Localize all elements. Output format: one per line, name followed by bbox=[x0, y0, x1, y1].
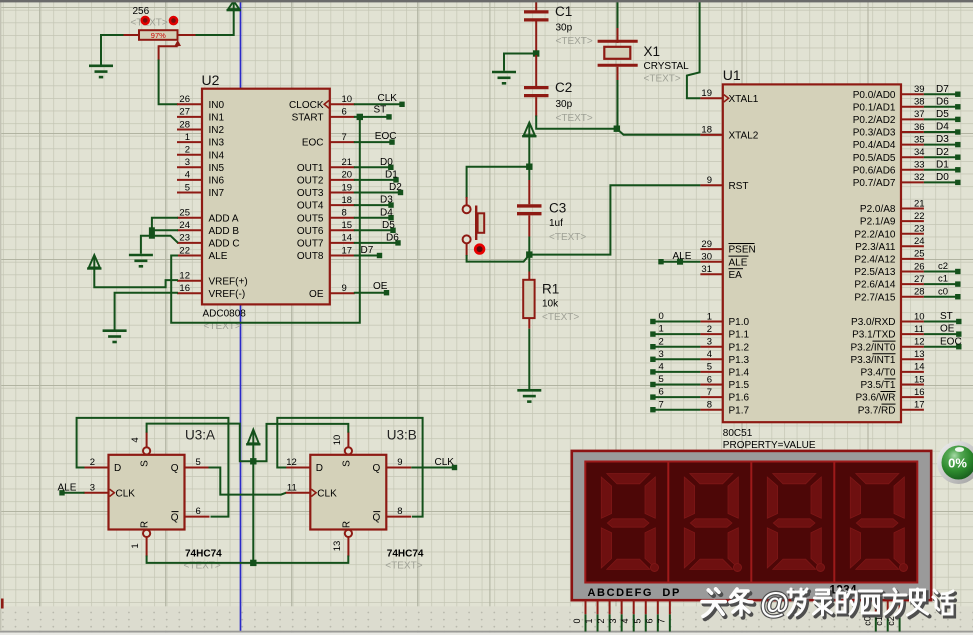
svg-text:7: 7 bbox=[707, 387, 712, 398]
ground (ADD pins) bbox=[129, 255, 153, 266]
svg-text:<TEXT>: <TEXT> bbox=[549, 232, 586, 243]
node ALE (U1) bbox=[658, 251, 700, 265]
svg-text:P3.1/TXD: P3.1/TXD bbox=[852, 330, 895, 341]
U1 pin 5 P1.4 bbox=[700, 362, 749, 379]
svg-text:10: 10 bbox=[342, 94, 353, 105]
svg-text:4: 4 bbox=[620, 618, 630, 623]
svg-text:D: D bbox=[316, 463, 323, 474]
svg-text:U3:B: U3:B bbox=[387, 427, 417, 442]
svg-text:IN6: IN6 bbox=[209, 176, 225, 187]
node ST bbox=[354, 105, 392, 121]
ground (VREF-) bbox=[103, 331, 127, 342]
capacitor C1 bbox=[524, 2, 549, 52]
svg-text:CLK: CLK bbox=[435, 457, 455, 468]
node D6 (U2) bbox=[354, 233, 401, 246]
svg-text:c0: c0 bbox=[862, 616, 872, 626]
svg-text:U2: U2 bbox=[202, 72, 220, 88]
svg-text:D5: D5 bbox=[382, 220, 395, 231]
svg-text:U3:A: U3:A bbox=[185, 427, 215, 442]
U2 pin 1 IN3 bbox=[177, 132, 225, 149]
svg-text:P1.4: P1.4 bbox=[729, 368, 750, 379]
node D1 (U1) bbox=[924, 159, 961, 172]
svg-text:<TEXT>: <TEXT> bbox=[542, 312, 579, 323]
wire VCC stem to R rail bbox=[252, 444, 254, 563]
U2 pin 12 VREF(+) bbox=[177, 271, 248, 288]
svg-text:5: 5 bbox=[632, 618, 642, 623]
svg-text:OUT5: OUT5 bbox=[297, 213, 324, 224]
node D4 (U1) bbox=[924, 122, 961, 135]
wire to button top bbox=[467, 167, 530, 206]
svg-text:P0.7/AD7: P0.7/AD7 bbox=[853, 178, 896, 189]
svg-text:2: 2 bbox=[90, 457, 95, 468]
svg-text:P2.2/A10: P2.2/A10 bbox=[854, 229, 896, 240]
U1 pin 39 P0.0/AD0 bbox=[853, 84, 925, 101]
7-seg pin 1 bbox=[584, 600, 598, 631]
svg-text:R1: R1 bbox=[542, 282, 559, 297]
potentiometer body bbox=[139, 30, 178, 40]
svg-text:D6: D6 bbox=[386, 233, 399, 244]
U3:A pin 4 S bbox=[130, 432, 151, 467]
svg-text:28: 28 bbox=[914, 287, 925, 298]
svg-text:START: START bbox=[292, 113, 324, 124]
sheet bottom margin strip bbox=[0, 606, 973, 630]
svg-text:D7: D7 bbox=[936, 84, 949, 95]
svg-text:74HC74: 74HC74 bbox=[387, 548, 424, 559]
svg-text:P2.3/A11: P2.3/A11 bbox=[855, 242, 896, 253]
svg-text:OUT1: OUT1 bbox=[297, 163, 324, 174]
svg-text:P3.4/T0: P3.4/T0 bbox=[860, 368, 895, 379]
svg-text:21: 21 bbox=[914, 198, 925, 209]
svg-text:P2.7/A15: P2.7/A15 bbox=[854, 292, 896, 303]
svg-text:10k: 10k bbox=[542, 299, 559, 310]
wire R rail bbox=[147, 556, 349, 563]
svg-text:21: 21 bbox=[342, 157, 353, 168]
U1 pin 9 RST bbox=[700, 175, 748, 192]
U2 pin 16 VREF(-) bbox=[177, 283, 245, 300]
svg-text:ADD A: ADD A bbox=[209, 213, 239, 224]
svg-text:13: 13 bbox=[332, 541, 343, 552]
svg-text:74HC74: 74HC74 bbox=[185, 548, 222, 559]
junction dot C1/C2 bbox=[533, 50, 539, 56]
svg-text:24: 24 bbox=[914, 236, 925, 247]
U1 pin 25 P2.4/A12 bbox=[854, 249, 924, 266]
power arrow (pot) bbox=[227, 1, 241, 10]
svg-text:<TEXT>: <TEXT> bbox=[644, 74, 681, 85]
junction dot ADD B bbox=[149, 227, 155, 233]
svg-text:IN7: IN7 bbox=[209, 188, 225, 199]
node OE (U1) bbox=[924, 324, 962, 337]
svg-text:4: 4 bbox=[659, 362, 664, 373]
svg-text:3: 3 bbox=[659, 349, 664, 360]
U2 pin 7 EOC bbox=[302, 132, 355, 149]
node c0 (U1) bbox=[924, 286, 961, 299]
node c2 (U1) bbox=[924, 261, 961, 274]
svg-text:0: 0 bbox=[572, 618, 582, 623]
svg-text:7: 7 bbox=[659, 399, 664, 410]
svg-text:OUT8: OUT8 bbox=[297, 251, 324, 262]
svg-text:c2: c2 bbox=[938, 261, 948, 272]
U1 pin 29 PSEN bbox=[700, 239, 755, 256]
wire button bottom bbox=[467, 243, 530, 261]
U3:B 74HC74 body bbox=[310, 455, 386, 530]
U1 pin 32 P0.7/AD7 bbox=[853, 172, 925, 189]
svg-text:OE: OE bbox=[309, 289, 324, 300]
svg-text:ALE: ALE bbox=[729, 257, 748, 268]
junction dot C3 top bbox=[526, 164, 532, 170]
svg-text:5: 5 bbox=[659, 374, 664, 385]
svg-text:19: 19 bbox=[701, 88, 712, 99]
U2 pin 15 OUT6 bbox=[297, 220, 355, 237]
7-seg digit 3 bbox=[767, 474, 824, 572]
U2 pin 6 START bbox=[292, 107, 355, 124]
node D6 (U1) bbox=[924, 96, 961, 109]
svg-text:D2: D2 bbox=[389, 182, 402, 193]
U2 pin 2 IN4 bbox=[177, 145, 225, 162]
node ALE (U3:A CLK) bbox=[58, 482, 85, 495]
svg-text:P1.2: P1.2 bbox=[729, 342, 750, 353]
svg-text:IN2: IN2 bbox=[209, 125, 225, 136]
U1 pin 28 P2.7/A15 bbox=[854, 287, 924, 304]
U3:A pin 6 Qbar bbox=[171, 506, 210, 523]
U1 pin 21 P2.0/A8 bbox=[860, 198, 925, 215]
capacitor C3 bbox=[517, 169, 542, 252]
svg-text:CLK: CLK bbox=[116, 488, 136, 499]
pot red indicator dot 1 bbox=[140, 16, 150, 26]
U3:A pin 2 D bbox=[84, 457, 122, 474]
svg-text:5: 5 bbox=[707, 362, 712, 373]
wire VREF+ to power bbox=[94, 269, 178, 288]
7-seg digit 1 bbox=[601, 474, 658, 572]
svg-text:7: 7 bbox=[342, 132, 347, 143]
svg-text:27: 27 bbox=[179, 107, 190, 118]
svg-text:ALE: ALE bbox=[209, 251, 228, 262]
svg-text:3: 3 bbox=[90, 482, 95, 493]
svg-text:R: R bbox=[341, 521, 352, 528]
svg-text:27: 27 bbox=[914, 274, 925, 285]
svg-text:EA: EA bbox=[729, 270, 743, 281]
svg-text:R: R bbox=[140, 521, 151, 528]
U2 pin 26 IN0 bbox=[177, 94, 225, 111]
U2 clock wedge bbox=[324, 100, 329, 108]
U2 pin 3 IN5 bbox=[177, 157, 225, 174]
wire wiper to IN0 bbox=[159, 45, 178, 104]
svg-text:D: D bbox=[114, 463, 121, 474]
U1 pin 22 P2.1/A9 bbox=[860, 211, 925, 228]
svg-text:OUT6: OUT6 bbox=[297, 226, 324, 237]
U1 pin 24 P2.3/A11 bbox=[855, 236, 924, 253]
svg-text:OUT3: OUT3 bbox=[297, 188, 324, 199]
ground (C1/C2) bbox=[492, 72, 516, 83]
svg-text:P3.0/RXD: P3.0/RXD bbox=[851, 317, 895, 328]
svg-text:P2.1/A9: P2.1/A9 bbox=[860, 217, 896, 228]
svg-text:IN5: IN5 bbox=[209, 163, 225, 174]
U1 XTAL1 clock wedge bbox=[724, 95, 729, 102]
node EOC (U1) bbox=[924, 336, 962, 349]
U1 pin 13 P3.3/INT1 bbox=[850, 349, 924, 366]
node 7 (U1 P1.7) bbox=[650, 399, 700, 412]
node 6 (U1 P1.6) bbox=[650, 387, 700, 400]
U2 pin 18 OUT4 bbox=[297, 195, 355, 212]
svg-text:C1: C1 bbox=[555, 4, 572, 19]
U2 pin 27 IN1 bbox=[177, 107, 225, 124]
svg-text:8: 8 bbox=[342, 208, 347, 219]
svg-text:32: 32 bbox=[914, 172, 925, 183]
svg-text:IN1: IN1 bbox=[209, 113, 225, 124]
svg-text:2: 2 bbox=[185, 145, 190, 156]
svg-text:37: 37 bbox=[914, 109, 925, 120]
svg-text:Q: Q bbox=[171, 512, 179, 523]
svg-text:P3.3/INT1: P3.3/INT1 bbox=[850, 355, 895, 366]
svg-text:34: 34 bbox=[914, 147, 925, 158]
junction dot C3 bottom bbox=[526, 251, 532, 257]
U1 pin 1 P1.0 bbox=[700, 311, 749, 328]
svg-text:VREF(+): VREF(+) bbox=[209, 276, 248, 287]
ground (pot) bbox=[89, 66, 113, 77]
U1 pin 16 P3.6/WR bbox=[855, 387, 924, 404]
svg-text:30p: 30p bbox=[556, 99, 573, 110]
svg-text:D1: D1 bbox=[385, 170, 398, 181]
svg-text:EOC: EOC bbox=[940, 336, 962, 347]
U1 pin 18 XTAL2 bbox=[700, 125, 758, 142]
7-seg pin c2 bbox=[886, 600, 900, 631]
wire C2 bottom to XTAL2 node bbox=[536, 116, 617, 129]
power arrow (reset) bbox=[522, 123, 536, 137]
svg-text:D1: D1 bbox=[936, 159, 949, 170]
svg-text:P1.0: P1.0 bbox=[729, 317, 750, 328]
U2 pin 24 ADD B bbox=[177, 220, 239, 237]
U3:B pin 12 D bbox=[285, 457, 323, 474]
svg-text:EOC: EOC bbox=[302, 138, 324, 149]
svg-text:P2.6/A14: P2.6/A14 bbox=[854, 280, 896, 291]
svg-text:12: 12 bbox=[286, 457, 297, 468]
svg-text:C2: C2 bbox=[555, 80, 572, 95]
svg-text:12: 12 bbox=[179, 271, 190, 282]
svg-text:15: 15 bbox=[342, 220, 353, 231]
C2 labels bbox=[555, 80, 593, 124]
U2 pin 4 IN6 bbox=[177, 170, 225, 187]
svg-text:CLK: CLK bbox=[317, 488, 337, 499]
U1 pin 2 P1.1 bbox=[700, 324, 749, 341]
svg-text:39: 39 bbox=[914, 84, 925, 95]
svg-text:6: 6 bbox=[644, 618, 654, 623]
svg-text:Q: Q bbox=[373, 463, 381, 474]
svg-text:12: 12 bbox=[914, 337, 925, 348]
svg-text:P3.6/WR: P3.6/WR bbox=[855, 393, 895, 404]
svg-text:36: 36 bbox=[914, 122, 925, 133]
svg-text:1: 1 bbox=[185, 132, 190, 143]
wire pot right to power bbox=[196, 10, 234, 35]
pot left lead bbox=[123, 34, 140, 36]
watermark 头条 @梦录的西方史话 bbox=[702, 587, 955, 620]
U2 pin 20 OUT2 bbox=[297, 170, 355, 187]
wire U3:A Q to U3:B CLK bbox=[209, 468, 286, 495]
wire XTAL1 from top bbox=[687, 1, 701, 98]
svg-text:30p: 30p bbox=[556, 23, 573, 34]
U1 pin 36 P0.3/AD3 bbox=[853, 122, 925, 139]
svg-text:ALE: ALE bbox=[673, 251, 692, 262]
svg-text:D6: D6 bbox=[936, 96, 949, 107]
svg-text:4: 4 bbox=[185, 170, 190, 181]
node c1 (U1) bbox=[924, 274, 961, 287]
capacitor C2 bbox=[524, 55, 549, 117]
svg-text:5: 5 bbox=[185, 182, 190, 193]
svg-text:ST: ST bbox=[374, 105, 387, 116]
svg-text:26: 26 bbox=[914, 261, 925, 272]
svg-text:OUT4: OUT4 bbox=[297, 201, 324, 212]
svg-text:6: 6 bbox=[659, 387, 664, 398]
node D5 (U2) bbox=[354, 220, 396, 233]
svg-text:EOC: EOC bbox=[375, 131, 397, 142]
svg-text:3: 3 bbox=[185, 157, 190, 168]
svg-text:PROPERTY=VALUE: PROPERTY=VALUE bbox=[723, 440, 816, 451]
7-seg pin 3 bbox=[608, 600, 622, 631]
U1 pin 8 P1.7 bbox=[700, 400, 749, 417]
U2 pin 17 OUT8 bbox=[297, 245, 355, 262]
svg-text:3: 3 bbox=[608, 618, 618, 623]
svg-text:9: 9 bbox=[397, 457, 402, 468]
svg-text:S: S bbox=[341, 460, 352, 467]
U2 pin 10 CLOCK bbox=[289, 94, 355, 111]
stray component stub at left edge bbox=[1, 599, 4, 609]
power arrow (VREF+) bbox=[87, 255, 101, 269]
svg-text:2: 2 bbox=[596, 618, 606, 623]
U2 pin 5 IN7 bbox=[177, 182, 225, 199]
7-seg pin 2 bbox=[596, 600, 610, 631]
svg-text:19: 19 bbox=[342, 182, 353, 193]
node D2 (U1) bbox=[924, 147, 961, 160]
pot wiper arrow bbox=[174, 40, 181, 46]
svg-text:D4: D4 bbox=[380, 207, 393, 218]
wire pot left to ground bbox=[101, 35, 124, 65]
node 1 (U1 P1.1) bbox=[650, 324, 700, 337]
X1 labels bbox=[644, 44, 690, 85]
node ST (U1) bbox=[924, 311, 962, 324]
svg-text:ADD B: ADD B bbox=[209, 226, 240, 237]
U1 pin 34 P0.5/AD5 bbox=[853, 147, 925, 164]
svg-text:6: 6 bbox=[196, 506, 201, 517]
U1 pin 27 P2.6/A14 bbox=[854, 274, 924, 291]
svg-text:D3: D3 bbox=[936, 134, 949, 145]
svg-text:IN4: IN4 bbox=[209, 150, 225, 161]
7-seg pin 6 bbox=[644, 600, 658, 631]
U1 pin 19 XTAL1 bbox=[700, 88, 758, 105]
U2 pin 14 OUT7 bbox=[297, 233, 355, 250]
svg-text:XTAL1: XTAL1 bbox=[729, 94, 759, 105]
U1 pin 12 P3.2/INT0 bbox=[850, 337, 924, 354]
pot right lead bbox=[178, 34, 197, 36]
svg-text:25: 25 bbox=[914, 249, 925, 260]
svg-text:D4: D4 bbox=[936, 122, 949, 133]
svg-text:P2.4/A12: P2.4/A12 bbox=[854, 255, 896, 266]
svg-text:1: 1 bbox=[130, 543, 141, 548]
svg-text:ABCDEFG DP: ABCDEFG DP bbox=[588, 587, 681, 599]
7-seg pin 0 bbox=[572, 600, 586, 631]
svg-text:18: 18 bbox=[701, 125, 712, 136]
svg-text:c1: c1 bbox=[874, 616, 884, 626]
svg-text:P3.7/RD: P3.7/RD bbox=[858, 405, 896, 416]
svg-text:30: 30 bbox=[701, 252, 712, 263]
svg-text:80C51: 80C51 bbox=[723, 428, 753, 439]
node CLK (U3:B Q) bbox=[411, 457, 457, 470]
svg-text:35: 35 bbox=[914, 134, 925, 145]
svg-text:P1.1: P1.1 bbox=[729, 330, 750, 341]
node D3 (U2) bbox=[354, 195, 394, 208]
node 0 (U1 P1.0) bbox=[650, 311, 700, 324]
svg-text:S: S bbox=[140, 460, 151, 467]
C1 labels bbox=[555, 4, 593, 47]
U1 80C51 body bbox=[723, 84, 901, 422]
U3:A pin 1 R bbox=[130, 521, 151, 557]
node D4 (U2) bbox=[354, 207, 394, 220]
svg-text:X1: X1 bbox=[644, 44, 661, 59]
svg-text:10: 10 bbox=[914, 311, 925, 322]
U1 pin 38 P0.1/AD1 bbox=[853, 97, 925, 114]
U2 ADC0808 body bbox=[202, 89, 330, 305]
junction dot XTAL2 bbox=[614, 126, 620, 132]
svg-text:VREF(-): VREF(-) bbox=[209, 289, 246, 300]
push button bbox=[463, 205, 485, 243]
svg-text:P0.1/AD1: P0.1/AD1 bbox=[853, 102, 896, 113]
wire U3:B S to VCC bbox=[255, 424, 348, 461]
svg-text:RST: RST bbox=[729, 181, 749, 192]
svg-text:20: 20 bbox=[342, 170, 353, 181]
svg-text:CLOCK: CLOCK bbox=[289, 100, 324, 111]
U1 pin 23 P2.2/A10 bbox=[854, 224, 924, 241]
svg-text:31: 31 bbox=[701, 264, 712, 275]
U2 pin 9 OE bbox=[309, 283, 355, 300]
U1 pin 37 P0.2/AD2 bbox=[853, 109, 925, 126]
svg-text:28: 28 bbox=[179, 119, 190, 130]
button red indicator bbox=[474, 243, 485, 254]
svg-text:1: 1 bbox=[707, 311, 712, 322]
node D5 (U1) bbox=[924, 109, 961, 122]
svg-text:P2.5/A13: P2.5/A13 bbox=[854, 267, 896, 278]
green progress sphere 0% bbox=[937, 441, 973, 484]
svg-text:CRYSTAL: CRYSTAL bbox=[644, 61, 690, 72]
svg-text:C3: C3 bbox=[549, 201, 566, 216]
blue sheet divider line bbox=[240, 2, 242, 631]
svg-text:2: 2 bbox=[659, 336, 664, 347]
svg-text:13: 13 bbox=[914, 349, 925, 360]
crystal X1 bbox=[598, 1, 638, 127]
svg-text:1: 1 bbox=[659, 324, 664, 335]
svg-text:<TEXT>: <TEXT> bbox=[556, 36, 593, 47]
7-seg pin c0 bbox=[862, 600, 876, 631]
U1 pin 14 P3.4/T0 bbox=[860, 362, 924, 379]
svg-text:4: 4 bbox=[707, 349, 712, 360]
svg-text:P3.2/INT0: P3.2/INT0 bbox=[850, 342, 895, 353]
svg-text:0%: 0% bbox=[948, 456, 967, 471]
svg-text:22: 22 bbox=[914, 211, 925, 222]
svg-text:ADC0808: ADC0808 bbox=[203, 309, 247, 320]
svg-text:c0: c0 bbox=[938, 286, 948, 297]
7-seg pin 7 bbox=[656, 600, 670, 631]
node 4 (U1 P1.4) bbox=[650, 362, 700, 375]
svg-text:14: 14 bbox=[342, 233, 353, 244]
svg-text:P1.3: P1.3 bbox=[729, 355, 750, 366]
ground (R1) bbox=[517, 390, 541, 401]
svg-text:P1.6: P1.6 bbox=[729, 393, 750, 404]
svg-text:IN3: IN3 bbox=[209, 138, 225, 149]
node D2 (U2) bbox=[354, 182, 403, 195]
svg-text:9: 9 bbox=[342, 283, 347, 294]
svg-text:CLK: CLK bbox=[378, 93, 398, 104]
svg-text:D0: D0 bbox=[936, 172, 949, 183]
svg-text:6: 6 bbox=[342, 107, 347, 118]
svg-text:c1: c1 bbox=[938, 274, 948, 285]
svg-text:18: 18 bbox=[342, 195, 353, 206]
U2 pin 19 OUT3 bbox=[297, 182, 355, 199]
